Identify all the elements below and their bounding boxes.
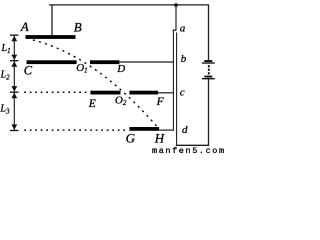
wire top horizontal [49, 4, 209, 6]
plate GH [129, 127, 159, 131]
wire battery column lower [208, 79, 210, 146]
dotted trajectory curve A to H [33, 40, 157, 126]
arrowhead up at tick2 [11, 61, 17, 67]
measure tick level 1 [10, 34, 19, 36]
svg-text:F: F [156, 96, 165, 108]
svg-text:L2: L2 [0, 69, 10, 81]
arrowhead up at tick3 [11, 93, 17, 99]
wire stub down to contact a [175, 5, 177, 30]
node junction dot on top wire [174, 3, 178, 7]
battery cell 2 short thick plate [204, 76, 212, 78]
svg-text:manfen5.com: manfen5.com [152, 146, 226, 156]
wire right return bus [176, 32, 178, 145]
dotted level line at plate G [24, 129, 127, 131]
wire tap b from plate D [119, 61, 173, 63]
wire battery column upper [208, 5, 210, 60]
wire left tap bus [172, 30, 174, 131]
wire from plate AB up [51, 5, 53, 36]
svg-text:H: H [154, 131, 165, 146]
battery cell 1 long thin plate [202, 62, 215, 64]
battery dotted continuation [208, 65, 210, 74]
svg-text:O2: O2 [115, 94, 127, 107]
svg-text:C: C [24, 63, 33, 77]
svg-text:D: D [116, 63, 125, 75]
measure tick level 3 [10, 91, 19, 93]
arrowhead up at tick1 [11, 36, 17, 42]
svg-text:c: c [180, 87, 185, 99]
svg-text:L3: L3 [0, 104, 10, 116]
wire tap d from plate GH [159, 129, 174, 131]
arrowhead down at tick4 [11, 124, 17, 129]
dotted level line at plate E [24, 91, 89, 93]
svg-text:b: b [181, 53, 187, 65]
plate E left segment [90, 91, 120, 95]
plate F right segment [129, 91, 158, 95]
wire tap c from plate F [158, 92, 174, 94]
measure tick level 2 [10, 60, 19, 62]
arrowhead down at tick2 [11, 55, 17, 61]
battery cell 1 short thick plate [204, 60, 212, 62]
battery cell 2 long thin plate [202, 78, 215, 80]
svg-text:a: a [180, 23, 186, 35]
arrowhead down at tick3 [11, 86, 17, 92]
wire bottom horizontal [176, 144, 209, 146]
svg-text:E: E [88, 98, 96, 110]
measure tick level 4 [10, 130, 19, 132]
svg-text:B: B [74, 19, 82, 34]
plate AB [26, 35, 76, 39]
wire foot of contact a [173, 29, 177, 31]
measure line left [13, 35, 15, 130]
svg-text:A: A [20, 19, 29, 34]
svg-text:d: d [182, 124, 188, 136]
plate C left segment [27, 60, 77, 64]
svg-text:L1: L1 [1, 43, 11, 55]
svg-text:G: G [126, 131, 136, 146]
plate D right segment [90, 60, 119, 64]
